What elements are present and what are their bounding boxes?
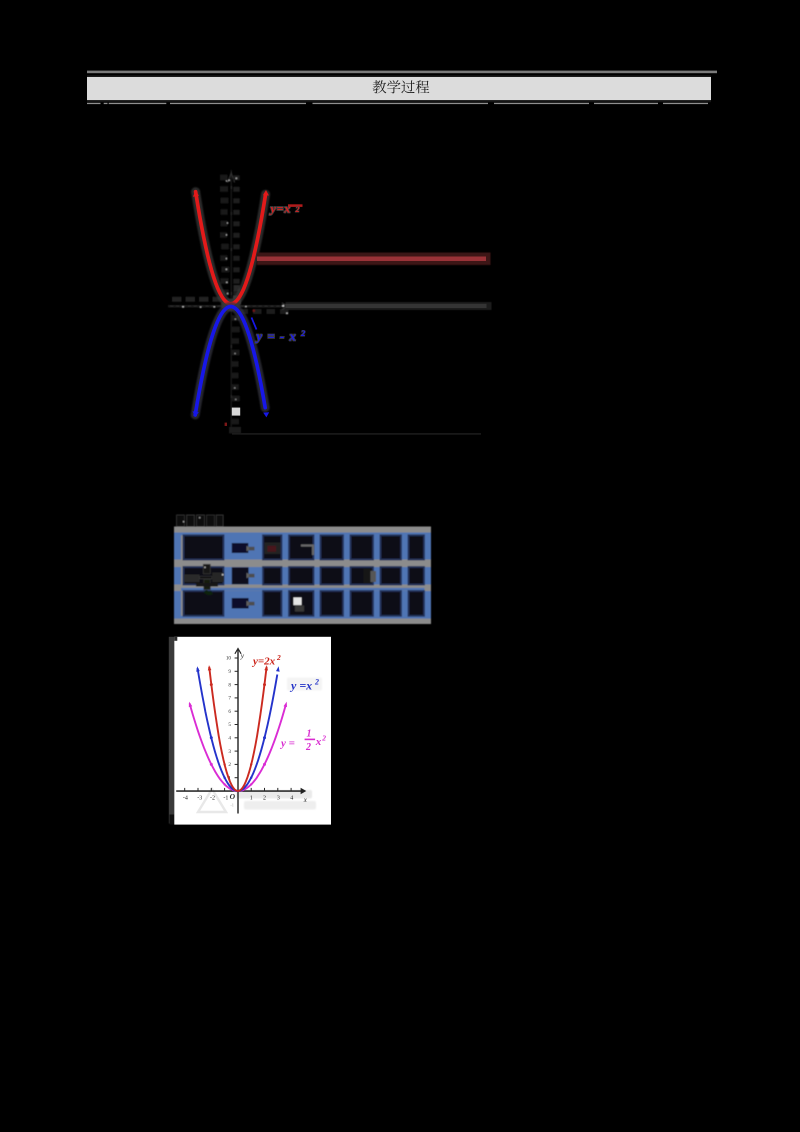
svg-text:3: 3: [277, 795, 280, 801]
svg-text:2: 2: [300, 328, 306, 338]
svg-text:y=x: y=x: [269, 201, 292, 215]
svg-text:8: 8: [228, 682, 231, 688]
fig1 x-axis ghost: [168, 297, 289, 314]
table ghost: col4 row3 white square: [294, 598, 302, 606]
table cells row2: [184, 567, 425, 585]
header bar: [87, 75, 711, 77]
fig1 vertex fog: [221, 299, 241, 311]
table cells row3: [184, 591, 425, 616]
table ghost: col6 row2 glyph: [364, 569, 372, 584]
table col2 ghost arrows: [247, 546, 253, 606]
fig1 x-axis arrow ghost: [282, 303, 288, 310]
svg-text:2: 2: [295, 205, 300, 214]
svg-text:y=-x: y=-x: [255, 329, 302, 343]
fig1 blue parabola y=-x^2: [195, 307, 265, 415]
table: [174, 527, 431, 625]
svg-text:O: O: [230, 792, 236, 801]
svg-text:5: 5: [228, 722, 231, 728]
svg-text:2: 2: [321, 734, 326, 743]
fig2 magenta parabola y=0.5x^2: [190, 703, 286, 791]
svg-text:2: 2: [314, 678, 319, 687]
table col2 dark bars: [232, 543, 249, 553]
fig2 white panel: [174, 637, 331, 825]
table blue verticals: [174, 529, 431, 621]
svg-text:-1: -1: [223, 795, 228, 801]
fig2 axis letter labels: [230, 651, 308, 804]
table ghost: col4 row1 corner mark: [301, 546, 313, 556]
header top rule: [87, 71, 717, 74]
fig2 red parabola y=2x^2: [209, 667, 266, 791]
fig2 tick labels: [183, 656, 293, 802]
svg-text:2: 2: [305, 742, 311, 753]
fig1 bottom ghost underline: [232, 433, 481, 435]
table cells row1: [184, 535, 425, 559]
svg-text:x: x: [315, 736, 322, 748]
fig1 long dark red line: [257, 253, 491, 266]
svg-text:y =x: y =x: [289, 679, 312, 693]
fig2 axes: [176, 649, 306, 814]
svg-text:3: 3: [228, 749, 231, 755]
fig1 blue branch tip arrows: [193, 411, 199, 417]
fig2 dark left strip: [169, 637, 175, 824]
ghost caption above table: [177, 515, 224, 527]
fig1 y-axis ghost line: [220, 170, 241, 432]
svg-text:y=2x: y=2x: [251, 656, 276, 668]
svg-text:6: 6: [228, 709, 231, 715]
fig1 y-axis tick-label ghosts: [220, 175, 228, 181]
svg-text:10: 10: [226, 656, 232, 662]
fig2 blue parabola y=x^2: [198, 668, 278, 791]
fig2 watermark blobs: [236, 678, 322, 810]
fig2 magenta label y=1/2x2: [279, 729, 326, 754]
fig1 red branch tip arrows: [193, 191, 199, 197]
svg-text:2: 2: [263, 795, 266, 801]
table slab: [174, 527, 431, 625]
header ghost underline dashes: [87, 103, 708, 104]
fig2 blue label y=x2: [289, 678, 319, 693]
svg-text:-4: -4: [183, 795, 188, 801]
svg-text:y =: y =: [279, 738, 295, 750]
svg-text:y: y: [240, 651, 245, 660]
fig1 red label y=x2: [269, 201, 303, 215]
table ghost: col1 row2 formula: [184, 564, 224, 593]
svg-text:-2: -2: [210, 795, 215, 801]
svg-text:1: 1: [307, 729, 312, 740]
svg-text:4: 4: [290, 795, 293, 801]
fig2 watermark triangle: [198, 789, 226, 812]
svg-text:9: 9: [228, 669, 231, 675]
svg-text:4: 4: [228, 736, 231, 742]
fig1 blue label y=-x2 with callout: [252, 318, 307, 344]
svg-text:2: 2: [228, 762, 231, 768]
table gray bands and blue rules: [174, 527, 431, 533]
svg-text:7: 7: [228, 696, 231, 702]
fig1 red parabola y=x^2: [196, 192, 266, 304]
fig1 long dark gray line: [286, 302, 492, 310]
fig1 y-axis arrow ghost: [228, 173, 235, 183]
svg-text:-1: -1: [230, 803, 234, 808]
svg-text:2: 2: [276, 653, 281, 662]
svg-text:-3: -3: [197, 795, 202, 801]
fig2 red label y=2x2: [251, 653, 281, 668]
fig1 white-gray square patch: [232, 408, 240, 416]
svg-text:1: 1: [250, 795, 253, 801]
header title 教学过程: [373, 80, 430, 93]
table ghost: col3 row1 dark red blob: [265, 543, 281, 555]
